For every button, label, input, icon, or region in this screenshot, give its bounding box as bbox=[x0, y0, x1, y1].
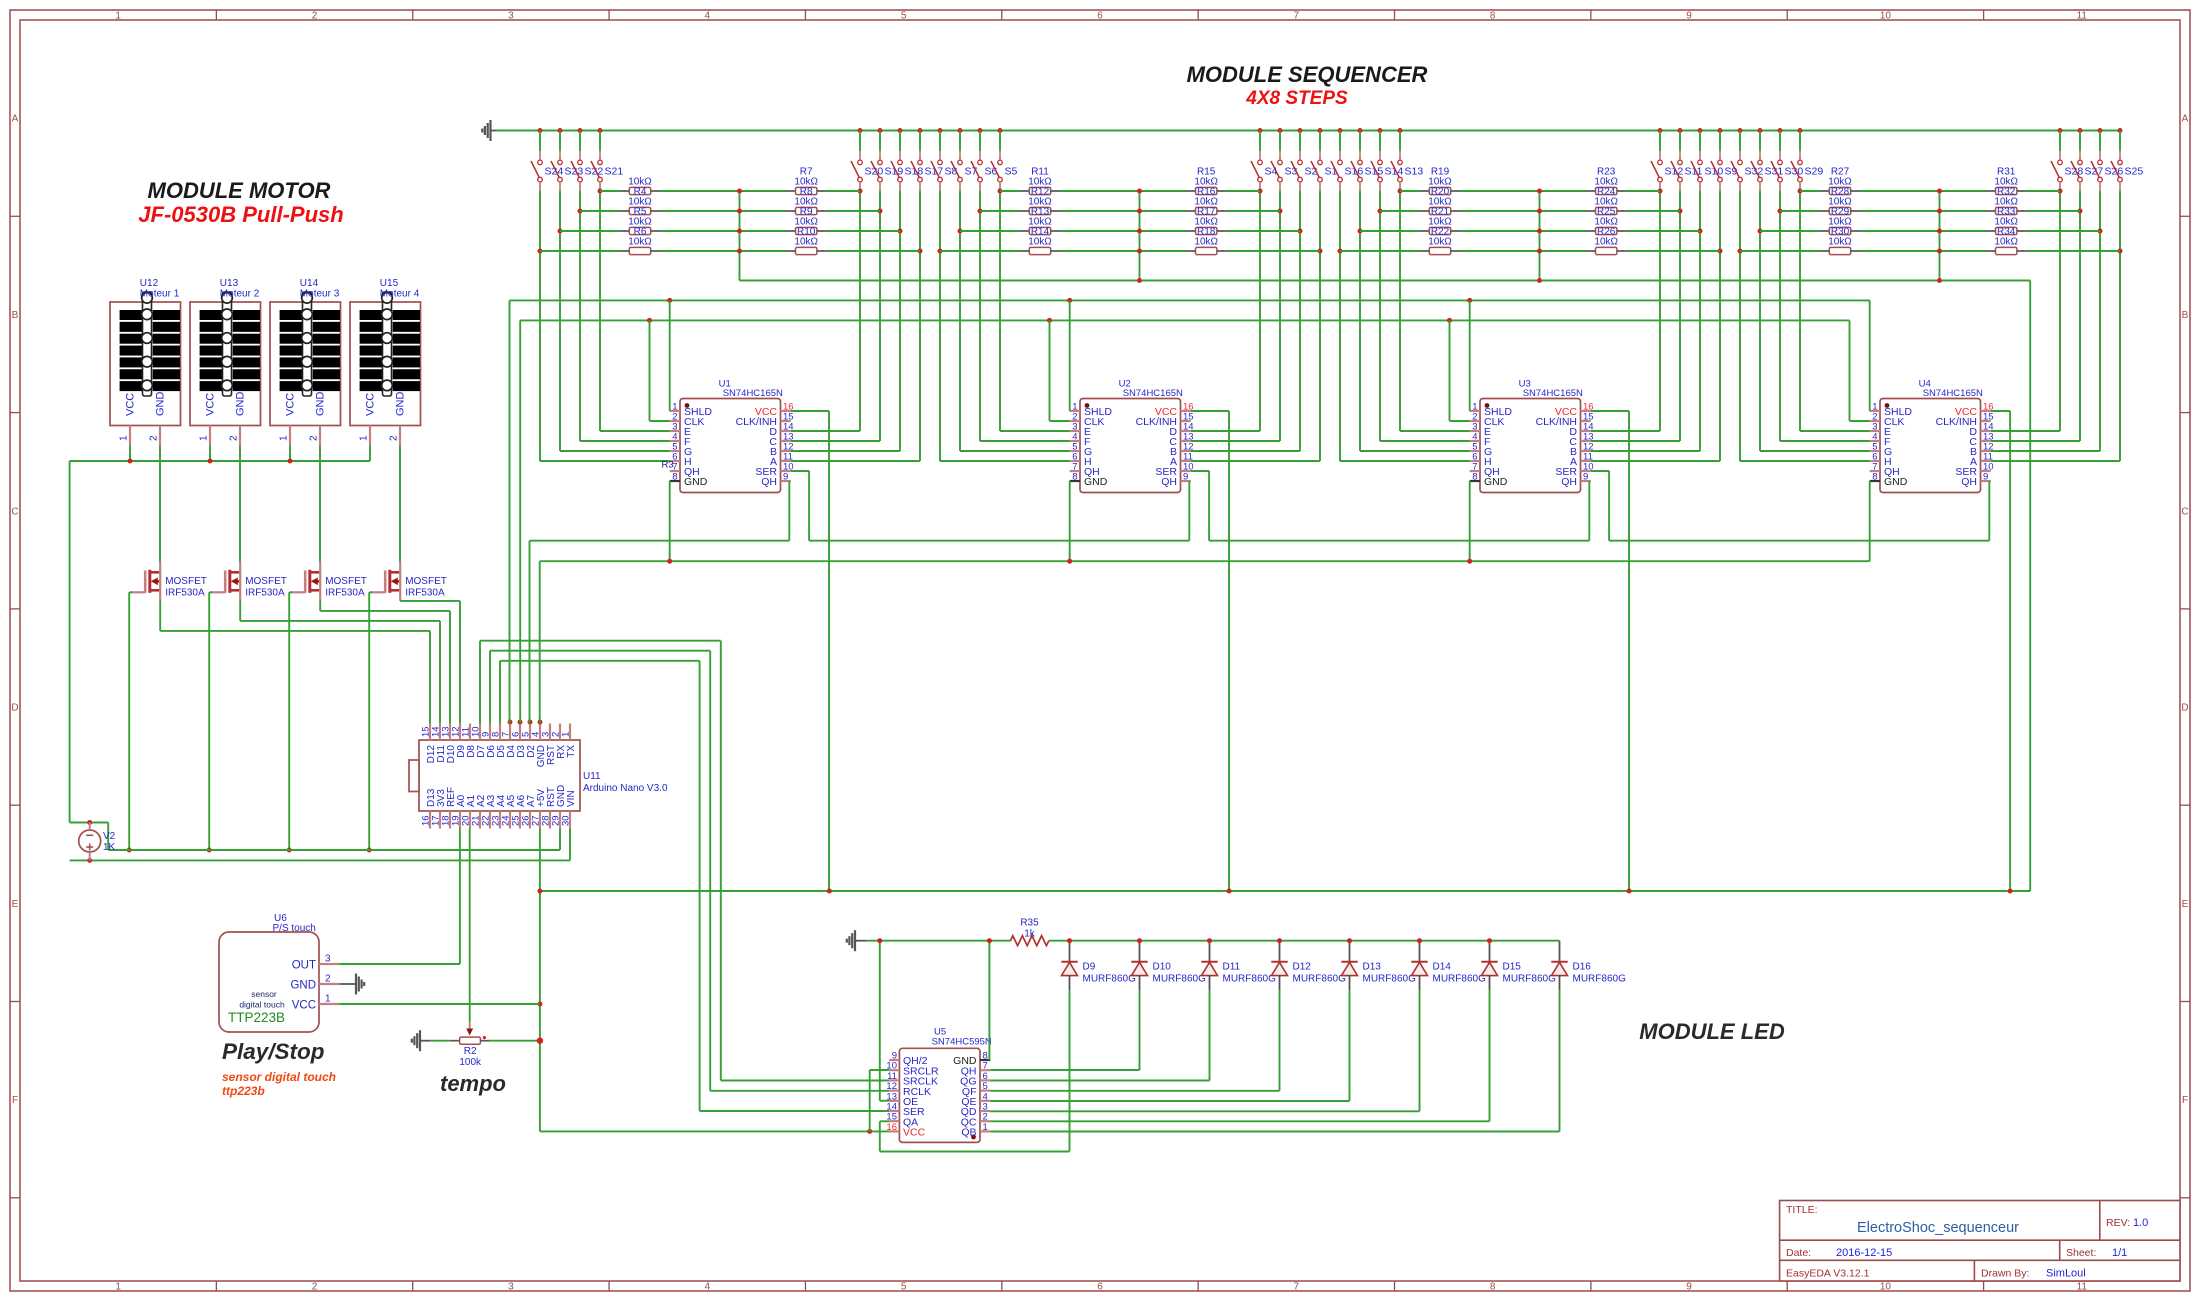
svg-text:VCC: VCC bbox=[204, 393, 216, 416]
resistor R32 10k bbox=[1986, 177, 2026, 198]
svg-text:R35: R35 bbox=[1020, 918, 1039, 929]
svg-text:U15: U15 bbox=[380, 278, 399, 289]
switch S8 bbox=[931, 128, 958, 191]
svg-text:8: 8 bbox=[1072, 472, 1077, 483]
switch S5 bbox=[991, 128, 1018, 191]
svg-text:1: 1 bbox=[359, 435, 370, 441]
transistor Q2 MOSFET IRF530A bbox=[211, 562, 287, 601]
wire S15 column bbox=[1359, 191, 1361, 451]
wire VIN to V2 rail bbox=[569, 829, 571, 861]
wire U1 GND drop bbox=[669, 481, 671, 561]
resistor R4 10k bbox=[620, 177, 660, 198]
svg-text:8: 8 bbox=[1490, 11, 1496, 22]
svg-text:10kΩ: 10kΩ bbox=[1028, 177, 1052, 188]
ground at R35 rail bbox=[847, 930, 866, 951]
wire S27 to register bbox=[1991, 440, 2080, 442]
resistor R14 10k bbox=[1020, 217, 1060, 238]
wire D10 to U5 bbox=[1139, 990, 1141, 1070]
wire S22 to register bbox=[580, 440, 670, 442]
svg-text:D13: D13 bbox=[1363, 962, 1382, 973]
wire D5 to U5 SER bbox=[499, 661, 501, 724]
svg-text:IRF530A: IRF530A bbox=[245, 588, 285, 599]
resistor R12 10k bbox=[1020, 177, 1060, 198]
wire S18 to register bbox=[791, 450, 900, 452]
wire U2 SHLD drop bbox=[1069, 300, 1071, 411]
wire U2 SER drop bbox=[1191, 470, 1209, 472]
switch S28 bbox=[2051, 128, 2083, 191]
svg-text:1: 1 bbox=[561, 732, 572, 737]
svg-text:1: 1 bbox=[279, 435, 290, 441]
wire S26 to register bbox=[1991, 450, 2100, 452]
svg-text:Arduino Nano V3.0: Arduino Nano V3.0 bbox=[583, 783, 668, 794]
svg-text:F: F bbox=[2182, 1095, 2188, 1106]
wire U5 SRCLR to VCC bbox=[870, 1069, 890, 1071]
resistor R22 10k bbox=[1420, 217, 1460, 238]
wire D4 to SHLD bus bbox=[509, 300, 511, 723]
wire S2 to register bbox=[1191, 450, 1300, 452]
wire Moteur2 GND to MOSFET drain bbox=[239, 446, 241, 562]
wire U1 QH drop bbox=[788, 481, 790, 541]
ground at R2 bbox=[412, 1030, 431, 1051]
switch S16 bbox=[1331, 128, 1363, 191]
svg-text:P/S touch: P/S touch bbox=[273, 923, 316, 934]
svg-text:2016-12-15: 2016-12-15 bbox=[1836, 1247, 1892, 1259]
wire D14 to U5 bbox=[1419, 990, 1421, 1111]
wire U2 VCC to +5V rail bbox=[1191, 410, 1229, 412]
switch S12 bbox=[1651, 128, 1683, 191]
resistor Rx 10k bbox=[620, 237, 660, 255]
svg-text:SN74HC165N: SN74HC165N bbox=[1923, 388, 1983, 399]
svg-text:B: B bbox=[2182, 310, 2189, 321]
switch S14 bbox=[1371, 128, 1403, 191]
diode D11 MURF860G bbox=[1201, 941, 1276, 991]
svg-text:MODULE MOTOR: MODULE MOTOR bbox=[148, 178, 331, 203]
svg-text:IRF530A: IRF530A bbox=[405, 588, 445, 599]
wire S16 to register bbox=[1340, 460, 1470, 462]
wire D12 to U5 bbox=[1279, 990, 1281, 1091]
svg-text:8: 8 bbox=[1490, 1282, 1496, 1293]
wire CLK bus bbox=[520, 319, 1849, 321]
wire S17 column bbox=[919, 191, 921, 461]
svg-text:1: 1 bbox=[115, 11, 121, 22]
switch S17 bbox=[911, 128, 943, 191]
svg-text:2: 2 bbox=[309, 435, 320, 441]
svg-text:SN74HC165N: SN74HC165N bbox=[1523, 388, 1583, 399]
wire U1 CLK drop bbox=[649, 320, 651, 421]
svg-text:8: 8 bbox=[672, 472, 677, 483]
wire Moteur1 VCC down bbox=[129, 446, 131, 462]
svg-text:ttp223b: ttp223b bbox=[222, 1084, 265, 1098]
svg-text:10kΩ: 10kΩ bbox=[1994, 197, 2018, 208]
wire S32 column bbox=[1739, 191, 1741, 461]
svg-text:GND: GND bbox=[290, 980, 316, 992]
svg-text:tempo: tempo bbox=[440, 1071, 506, 1096]
wire S22 column bbox=[579, 191, 581, 441]
svg-text:MODULE SEQUENCER: MODULE SEQUENCER bbox=[1187, 62, 1428, 87]
svg-text:5: 5 bbox=[901, 1282, 907, 1293]
svg-text:R23: R23 bbox=[1597, 166, 1616, 177]
svg-text:10kΩ: 10kΩ bbox=[1028, 217, 1052, 228]
svg-text:4X8 STEPS: 4X8 STEPS bbox=[1245, 88, 1348, 109]
wire pullup center bbox=[1939, 191, 1941, 281]
svg-text:QH: QH bbox=[761, 476, 777, 488]
wire D3 to CLK bus bbox=[519, 320, 521, 723]
svg-text:1: 1 bbox=[325, 994, 331, 1005]
resistor R13 10k bbox=[1020, 197, 1060, 218]
wire S14 column bbox=[1379, 191, 1381, 441]
svg-text:7: 7 bbox=[1294, 11, 1300, 22]
wire SHLD bus bbox=[510, 299, 1870, 301]
svg-text:3: 3 bbox=[325, 954, 331, 965]
svg-text:1: 1 bbox=[199, 435, 210, 441]
wire U4 SHLD drop bbox=[1869, 300, 1871, 411]
svg-text:10kΩ: 10kΩ bbox=[1594, 197, 1618, 208]
switch S18 bbox=[891, 128, 923, 191]
resistor Rx 10k bbox=[786, 237, 826, 255]
svg-text:1: 1 bbox=[119, 435, 130, 441]
switch S32 bbox=[1731, 128, 1763, 191]
wire U5 GND up to rail bbox=[988, 941, 990, 1060]
resistor R18 10k bbox=[1186, 217, 1226, 238]
svg-text:REV:: REV: bbox=[2106, 1217, 2130, 1229]
svg-text:U13: U13 bbox=[220, 278, 239, 289]
svg-text:E: E bbox=[12, 899, 19, 910]
svg-text:TX: TX bbox=[566, 745, 577, 758]
switch S6 bbox=[971, 128, 998, 191]
diode D16 MURF860G bbox=[1551, 941, 1626, 991]
wire A1 to R2 wiper bbox=[469, 829, 471, 1022]
wire S13 column bbox=[1399, 191, 1401, 431]
svg-text:D12: D12 bbox=[1293, 962, 1312, 973]
wire LED GND rail left bbox=[866, 940, 1010, 942]
svg-text:3: 3 bbox=[508, 1282, 514, 1293]
wire S26 column bbox=[2099, 191, 2101, 451]
wire S14 to register bbox=[1380, 440, 1470, 442]
wire resistor row bbox=[960, 230, 1020, 232]
svg-text:GND: GND bbox=[1884, 476, 1908, 488]
svg-text:sensor: sensor bbox=[251, 989, 277, 999]
svg-text:VCC: VCC bbox=[124, 393, 136, 416]
switch S4 bbox=[1251, 128, 1278, 191]
svg-text:GND: GND bbox=[1484, 476, 1508, 488]
transistor Q4 MOSFET IRF530A bbox=[371, 562, 447, 601]
svg-text:QH: QH bbox=[1161, 476, 1177, 488]
switch S9 bbox=[1711, 128, 1738, 191]
transistor Q1 MOSFET IRF530A bbox=[131, 562, 207, 601]
switch S19 bbox=[871, 128, 903, 191]
wire Moteur3 GND to MOSFET drain bbox=[319, 446, 321, 562]
wire S9 to register bbox=[1591, 460, 1720, 462]
svg-text:10kΩ: 10kΩ bbox=[628, 177, 652, 188]
wire S18 column bbox=[899, 191, 901, 451]
wire pullup center bbox=[739, 191, 741, 281]
wire resistor row bbox=[1760, 230, 1820, 232]
svg-text:A: A bbox=[12, 114, 19, 125]
svg-text:10kΩ: 10kΩ bbox=[1594, 217, 1618, 228]
resistor R9 10k bbox=[786, 197, 826, 218]
svg-text:MOSFET: MOSFET bbox=[165, 576, 207, 587]
title block bbox=[1780, 1201, 2180, 1282]
resistor R33 10k bbox=[1986, 197, 2026, 218]
wire S23 column bbox=[559, 191, 561, 451]
connector U13 Moteur 2 bbox=[190, 278, 261, 446]
svg-text:R3: R3 bbox=[662, 460, 674, 471]
switch S20 bbox=[851, 128, 883, 191]
svg-text:S21: S21 bbox=[605, 166, 624, 178]
svg-text:10kΩ: 10kΩ bbox=[1428, 237, 1452, 248]
svg-text:9: 9 bbox=[1983, 472, 1988, 483]
switch S13 bbox=[1391, 128, 1423, 191]
svg-text:IRF530A: IRF530A bbox=[325, 588, 365, 599]
svg-text:MURF860G: MURF860G bbox=[1083, 974, 1137, 985]
switch S7 bbox=[951, 128, 978, 191]
wire S7 to register bbox=[960, 450, 1070, 452]
wire U4 VCC to +5V rail bbox=[1991, 410, 2010, 412]
svg-text:D10: D10 bbox=[1153, 962, 1172, 973]
svg-text:S13: S13 bbox=[1405, 166, 1424, 178]
resistor R34 10k bbox=[1986, 217, 2026, 238]
wire U4 CLK drop bbox=[1849, 320, 1851, 421]
svg-text:E: E bbox=[2182, 899, 2189, 910]
resistor R8 10k bbox=[786, 177, 826, 198]
switch S23 bbox=[551, 128, 583, 191]
diode D14 MURF860G bbox=[1411, 941, 1486, 991]
switch S27 bbox=[2071, 128, 2103, 191]
wire U2 QH drop bbox=[1188, 481, 1190, 541]
svg-text:Moteur 2: Moteur 2 bbox=[220, 289, 260, 300]
IC U1 SN74HC165N bbox=[670, 379, 794, 493]
svg-text:10kΩ: 10kΩ bbox=[1828, 177, 1852, 188]
resistor R26 10k bbox=[1586, 217, 1626, 238]
svg-text:9: 9 bbox=[1686, 11, 1692, 22]
switch S24 bbox=[531, 128, 563, 191]
wire Q2 gate down bbox=[209, 591, 212, 593]
wire +5V rail bbox=[540, 890, 2030, 892]
IC U11 Arduino Nano V3.0 bbox=[409, 724, 668, 829]
wire S31 column bbox=[1759, 191, 1761, 451]
wire S31 to register bbox=[1760, 450, 1870, 452]
svg-text:F: F bbox=[12, 1095, 18, 1106]
wire resistor row bbox=[1400, 190, 1420, 192]
svg-text:MURF860G: MURF860G bbox=[1503, 974, 1557, 985]
svg-text:D: D bbox=[11, 703, 18, 714]
wire U3 VCC to +5V rail bbox=[1591, 410, 1629, 412]
wire A0 to U6 OUT bbox=[459, 829, 461, 965]
wire S28 column bbox=[2059, 191, 2061, 431]
svg-text:2: 2 bbox=[312, 11, 318, 22]
svg-text:10kΩ: 10kΩ bbox=[628, 197, 652, 208]
svg-text:10kΩ: 10kΩ bbox=[1428, 177, 1452, 188]
wire S10 column bbox=[1699, 191, 1701, 451]
switch S10 bbox=[1691, 128, 1723, 191]
wire S25 column bbox=[2119, 191, 2121, 461]
svg-text:S5: S5 bbox=[1005, 166, 1018, 178]
svg-text:R19: R19 bbox=[1431, 166, 1450, 177]
wire D15 to U5 bbox=[1489, 990, 1491, 1121]
svg-text:EasyEDA V3.12.1: EasyEDA V3.12.1 bbox=[1786, 1268, 1870, 1280]
wire S9 column bbox=[1719, 191, 1721, 461]
svg-text:8: 8 bbox=[1872, 472, 1877, 483]
svg-text:MOSFET: MOSFET bbox=[405, 576, 447, 587]
resistor R28 10k bbox=[1820, 177, 1860, 198]
wire S28 to register bbox=[1991, 430, 2060, 432]
wire S12 to register bbox=[1591, 430, 1660, 432]
svg-text:10kΩ: 10kΩ bbox=[1594, 237, 1618, 248]
resistor Rx 10k bbox=[1020, 237, 1060, 255]
svg-text:10kΩ: 10kΩ bbox=[794, 197, 818, 208]
svg-text:GND: GND bbox=[154, 392, 166, 417]
wire U3 CLK drop bbox=[1449, 320, 1451, 421]
wire U3 SHLD drop bbox=[1469, 300, 1471, 411]
resistor R25 10k bbox=[1586, 197, 1626, 218]
wire U4 GND drop bbox=[1869, 481, 1871, 561]
wire D11 to U5 bbox=[1209, 990, 1211, 1080]
svg-text:1: 1 bbox=[983, 1122, 988, 1133]
wire Q1 source to arduino bbox=[159, 601, 161, 631]
svg-text:QH: QH bbox=[1561, 476, 1577, 488]
wire S20 column bbox=[859, 191, 861, 431]
transistor Q3 MOSFET IRF530A bbox=[291, 562, 367, 601]
wire U1.SER-U2.QH link bbox=[809, 540, 1189, 542]
svg-text:R11: R11 bbox=[1031, 166, 1049, 177]
wire S8 column bbox=[939, 191, 941, 461]
wire S16 column bbox=[1339, 191, 1341, 461]
wire +5V column bbox=[539, 829, 541, 1132]
svg-text:MOSFET: MOSFET bbox=[325, 576, 367, 587]
wire top VCC-switch rail bbox=[497, 130, 2120, 132]
svg-text:VIN: VIN bbox=[566, 790, 577, 807]
svg-text:SimLoul: SimLoul bbox=[2046, 1268, 2086, 1280]
wire U1 VCC to +5V rail bbox=[791, 410, 829, 412]
wire S1 column bbox=[1319, 191, 1321, 461]
wire S24 to register bbox=[540, 460, 670, 462]
wire Moteur4 VCC down bbox=[369, 446, 371, 462]
wire U3 SER drop bbox=[1591, 470, 1609, 472]
wire S1 to register bbox=[1191, 460, 1320, 462]
svg-text:sensor digital touch: sensor digital touch bbox=[222, 1070, 336, 1084]
resistor R10 10k bbox=[786, 217, 826, 238]
connector U12 Moteur 1 bbox=[110, 278, 181, 446]
wire S25 to register bbox=[1991, 460, 2120, 462]
wire resistor row bbox=[1360, 230, 1420, 232]
svg-text:S29: S29 bbox=[1805, 166, 1824, 178]
resistor Rx 10k bbox=[1186, 237, 1226, 255]
svg-text:10kΩ: 10kΩ bbox=[1194, 217, 1218, 228]
switch S3 bbox=[1271, 128, 1298, 191]
resistor R5 10k bbox=[620, 197, 660, 218]
resistor Rx 10k bbox=[1586, 237, 1626, 255]
IC U4 SN74HC165N bbox=[1870, 379, 1994, 493]
wire S21 column bbox=[599, 191, 601, 431]
svg-text:10kΩ: 10kΩ bbox=[1828, 237, 1852, 248]
svg-text:10: 10 bbox=[1880, 1282, 1892, 1293]
wire D7 to U5 SRCLK bbox=[479, 641, 481, 724]
svg-text:U11: U11 bbox=[583, 771, 601, 782]
svg-text:10kΩ: 10kΩ bbox=[1994, 237, 2018, 248]
svg-text:6: 6 bbox=[1097, 11, 1103, 22]
svg-text:MOSFET: MOSFET bbox=[245, 576, 287, 587]
svg-text:IRF530A: IRF530A bbox=[165, 588, 205, 599]
wire U1 SER drop bbox=[791, 470, 809, 472]
svg-text:10kΩ: 10kΩ bbox=[1028, 237, 1052, 248]
wire R2 to +5V column bbox=[490, 1040, 540, 1042]
svg-text:OUT: OUT bbox=[292, 960, 316, 972]
diode D9 MURF860G bbox=[1061, 941, 1136, 991]
wire S29 to register bbox=[1800, 430, 1870, 432]
wire pullup center bbox=[1139, 191, 1141, 281]
resistor R21 10k bbox=[1420, 197, 1460, 218]
wire S10 to register bbox=[1591, 450, 1700, 452]
switch S2 bbox=[1291, 128, 1318, 191]
svg-text:SN74HC165N: SN74HC165N bbox=[723, 388, 783, 399]
svg-text:A: A bbox=[2182, 114, 2189, 125]
svg-text:GND: GND bbox=[314, 392, 326, 417]
wire Q3 gate down bbox=[289, 591, 292, 593]
wire S7 column bbox=[959, 191, 961, 451]
wire S32 to register bbox=[1740, 460, 1870, 462]
svg-text:R7: R7 bbox=[800, 166, 813, 177]
svg-text:5: 5 bbox=[901, 11, 907, 22]
wire S19 column bbox=[879, 191, 881, 441]
svg-text:SN74HC595N: SN74HC595N bbox=[932, 1037, 992, 1048]
svg-text:16: 16 bbox=[886, 1122, 897, 1133]
wire U1 SHLD drop bbox=[669, 300, 671, 411]
IC U3 SN74HC165N bbox=[1470, 379, 1594, 493]
svg-text:1k: 1k bbox=[1024, 929, 1036, 940]
switch S29 bbox=[1791, 128, 1823, 191]
wire Q4 source to arduino bbox=[399, 600, 401, 602]
wire S30 column bbox=[1779, 191, 1781, 441]
svg-text:digital touch: digital touch bbox=[239, 1000, 285, 1010]
wire D2 to QH link bbox=[529, 541, 531, 724]
wire S8 to register bbox=[940, 460, 1070, 462]
wire D13 to U5 bbox=[1349, 990, 1351, 1101]
wire S13 to register bbox=[1400, 430, 1470, 432]
wire S5 to register bbox=[1000, 430, 1070, 432]
svg-text:C: C bbox=[2181, 506, 2188, 517]
wire S4 column bbox=[1259, 191, 1261, 431]
wire U3 QH drop bbox=[1588, 481, 1590, 541]
wire U2 GND drop bbox=[1069, 481, 1071, 561]
svg-text:V2: V2 bbox=[103, 831, 116, 842]
wire S30 to register bbox=[1780, 440, 1870, 442]
svg-text:MURF860G: MURF860G bbox=[1293, 974, 1347, 985]
svg-text:ElectroShoc_sequenceur: ElectroShoc_sequenceur bbox=[1857, 1220, 2019, 1236]
wire S19 to register bbox=[791, 440, 880, 442]
svg-text:MURF860G: MURF860G bbox=[1153, 974, 1207, 985]
svg-text:1/1: 1/1 bbox=[2112, 1247, 2127, 1259]
svg-text:10kΩ: 10kΩ bbox=[1194, 237, 1218, 248]
svg-text:9: 9 bbox=[1583, 472, 1588, 483]
svg-text:D16: D16 bbox=[1573, 962, 1592, 973]
wire pullup center bbox=[1539, 191, 1541, 281]
svg-text:MURF860G: MURF860G bbox=[1223, 974, 1277, 985]
svg-text:9: 9 bbox=[1183, 472, 1188, 483]
svg-text:30: 30 bbox=[561, 815, 572, 826]
wire U5 QA to D9 bbox=[880, 1120, 889, 1122]
wire S20 to register bbox=[791, 430, 860, 432]
svg-text:6: 6 bbox=[1097, 1282, 1103, 1293]
resistor R29 10k bbox=[1820, 197, 1860, 218]
svg-text:10kΩ: 10kΩ bbox=[1994, 217, 2018, 228]
svg-text:11: 11 bbox=[2077, 1282, 2088, 1293]
wire U4 QH drop bbox=[1988, 481, 1990, 541]
wire U3 GND drop bbox=[1469, 481, 1471, 561]
svg-text:2: 2 bbox=[312, 1282, 318, 1293]
wire Moteur2 VCC down bbox=[209, 446, 211, 462]
switch S22 bbox=[571, 128, 603, 191]
svg-text:SN74HC165N: SN74HC165N bbox=[1123, 388, 1183, 399]
